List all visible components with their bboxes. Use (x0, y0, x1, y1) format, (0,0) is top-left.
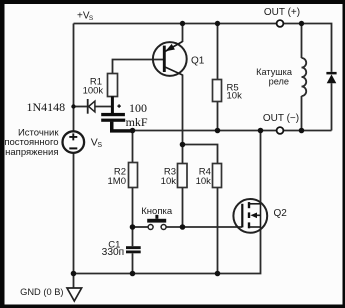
svg-text:GND (0 В): GND (0 В) (20, 287, 63, 297)
svg-text:Q1: Q1 (191, 56, 205, 67)
svg-text:10k: 10k (227, 91, 243, 102)
svg-text:Катушка: Катушка (256, 67, 293, 77)
svg-text:10k: 10k (196, 176, 212, 187)
svg-text:mkF: mkF (126, 115, 148, 129)
svg-text:1M0: 1M0 (108, 176, 126, 187)
svg-text:100k: 100k (83, 86, 104, 97)
svg-text:100: 100 (129, 101, 147, 115)
svg-text:Кнопка: Кнопка (141, 206, 173, 217)
svg-text:напряжения: напряжения (5, 147, 58, 158)
svg-text:330п: 330п (102, 247, 125, 258)
svg-text:OUT (+): OUT (+) (264, 7, 300, 18)
svg-text:реле: реле (269, 77, 289, 87)
svg-text:Q2: Q2 (274, 208, 288, 219)
svg-text:10k: 10k (161, 176, 177, 187)
svg-text:1N4148: 1N4148 (27, 100, 66, 114)
svg-text:OUT (−): OUT (−) (263, 113, 299, 124)
